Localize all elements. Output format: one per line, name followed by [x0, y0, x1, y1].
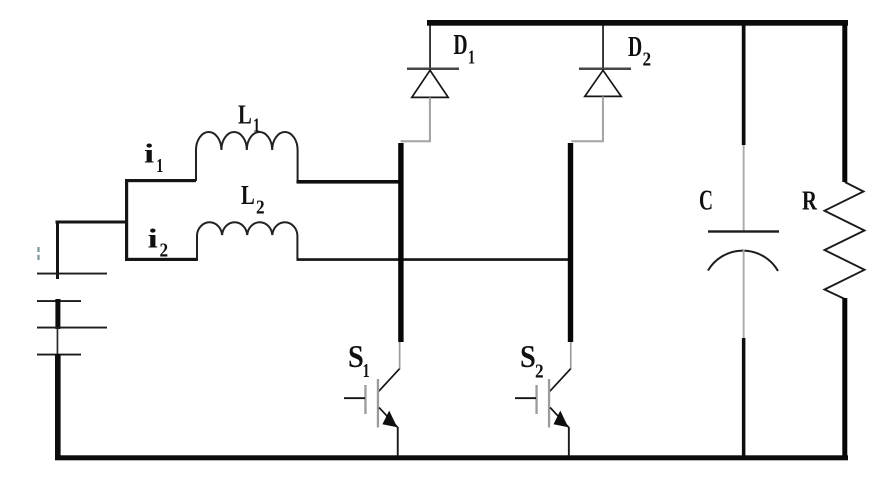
svg-text:2: 2 — [643, 49, 652, 71]
svg-text:C: C — [699, 185, 713, 216]
svg-text:1: 1 — [468, 46, 475, 68]
svg-text:L: L — [241, 180, 255, 210]
svg-text:2: 2 — [535, 361, 544, 383]
svg-text:S: S — [348, 338, 364, 374]
svg-text:1: 1 — [363, 360, 370, 382]
svg-text:i: i — [144, 139, 155, 169]
svg-text:2: 2 — [256, 197, 265, 219]
svg-text:i: i — [148, 224, 159, 254]
svg-text:D: D — [453, 30, 467, 61]
svg-text:D: D — [628, 32, 642, 63]
svg-text:R: R — [802, 186, 817, 216]
svg-text:1: 1 — [156, 155, 163, 177]
svg-text:1: 1 — [253, 115, 260, 137]
svg-text:L: L — [238, 100, 252, 130]
svg-text:S: S — [520, 338, 536, 374]
svg-text:2: 2 — [160, 240, 169, 262]
